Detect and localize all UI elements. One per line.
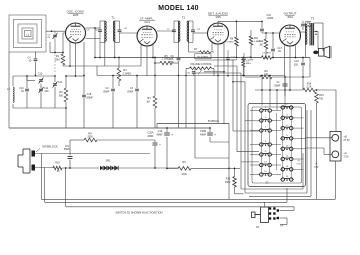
resistor R6 10 MEG in box <box>195 54 212 59</box>
wire - riser to S1 box bottom <box>286 188 288 202</box>
wire - cross links between columns <box>272 110 282 112</box>
trimmer capacitor C11 <box>53 83 57 85</box>
svg-text:+: + <box>171 133 173 137</box>
tube V1 OSC-CONV 1R5 <box>66 10 86 44</box>
svg-text:C6: C6 <box>124 28 128 30</box>
wire - line cord bottom <box>35 167 53 169</box>
svg-text:T3: T3 <box>311 17 315 21</box>
svg-text:MF: MF <box>170 61 174 64</box>
svg-text:C1: C1 <box>48 34 52 36</box>
capacitor C21 .05MF <box>68 156 73 158</box>
output transformer T3 <box>306 17 315 46</box>
capacitor C15 .05MF <box>82 94 86 96</box>
wire - contact column links right <box>282 108 284 180</box>
capacitor C10 volume coupling <box>192 71 195 73</box>
wire - AVC bus <box>63 65 112 67</box>
svg-text:MODEL 140: MODEL 140 <box>158 5 198 12</box>
wire - B minus riser down <box>228 168 230 199</box>
wire - V1 plate lower lead <box>86 38 101 40</box>
resistor R13 1500 <box>233 177 237 188</box>
resistor R14 2.2K <box>303 88 315 92</box>
wire - R15 riser <box>316 103 318 199</box>
wire - V2 plate to T2 <box>157 30 174 32</box>
svg-text:60: 60 <box>29 61 32 63</box>
svg-text:2.2MEG: 2.2MEG <box>123 73 132 76</box>
trimmer C8 <box>192 21 194 29</box>
svg-text:+: + <box>214 133 216 137</box>
wire - B+ bus top <box>95 57 240 59</box>
switch S1 contact R4 <box>281 137 284 140</box>
resistor R15 750 <box>315 92 319 103</box>
resistor R4 1 MEG <box>153 96 157 108</box>
rectifier SR1 <box>100 160 118 171</box>
capacitor C15 470MMF <box>301 23 305 25</box>
svg-text:.05MF: .05MF <box>274 85 281 88</box>
wire - line cord top <box>35 153 150 155</box>
wire - V1 left pin to R1 <box>63 32 66 34</box>
svg-text:.05MF: .05MF <box>63 149 70 151</box>
svg-text:1500: 1500 <box>225 181 231 184</box>
svg-text:3.3 MEG: 3.3 MEG <box>262 52 271 54</box>
capacitor C20B 40MF <box>207 132 213 134</box>
capacitor C4 <box>35 52 37 59</box>
wire - grid return <box>50 52 63 54</box>
potentiometer R5 1M volume control <box>190 67 212 70</box>
wire - right column stubs to box edge <box>294 117 304 119</box>
svg-text:VOLUME CONTROL: VOLUME CONTROL <box>190 64 212 66</box>
trimmer C5 <box>99 21 101 29</box>
svg-text:430: 430 <box>45 90 50 93</box>
wire - T2 secondary return <box>178 43 180 58</box>
IF transformer T1 <box>100 16 120 43</box>
tube V3 DET & AUDIO 1S5 <box>208 12 229 45</box>
svg-text:INTERLOCK: INTERLOCK <box>42 145 58 149</box>
resistor R10 33 <box>53 166 62 170</box>
svg-text:1M: 1M <box>259 44 262 47</box>
wire - entries into box top <box>261 76 263 106</box>
wire - T1 secondary return <box>104 43 106 67</box>
svg-text:1R5: 1R5 <box>73 13 79 17</box>
wire - feed 4 <box>244 82 246 193</box>
wire - coupling to V4 grid <box>262 32 280 34</box>
IF transformer T2 <box>174 16 193 43</box>
switch S1 contact L4 <box>260 143 263 146</box>
resistor R8 1.5 MEG <box>235 37 239 46</box>
resistor R12 1 MEG <box>264 39 268 49</box>
switch S1 contact R2 <box>281 116 284 119</box>
svg-text:40MF: 40MF <box>156 134 163 137</box>
svg-text:1200: 1200 <box>181 173 187 176</box>
wire - under-box bus 3 <box>249 195 311 197</box>
svg-text:1S5: 1S5 <box>215 15 221 19</box>
svg-text:L1: L1 <box>26 33 29 36</box>
loop antenna L1 <box>9 15 46 52</box>
oscillator coil L2 <box>13 87 14 102</box>
svg-text:C13: C13 <box>38 73 43 76</box>
svg-text:40MF: 40MF <box>147 135 154 138</box>
svg-text:1M: 1M <box>146 101 149 104</box>
wire - volume to ground bus <box>178 70 180 128</box>
svg-text:750: 750 <box>319 98 324 101</box>
wire - T2 to V3 grid <box>193 32 208 34</box>
svg-text:1U4: 1U4 <box>144 20 150 24</box>
svg-text:7.5V: 7.5V <box>314 166 319 169</box>
wire - T3 primary to B+ <box>305 45 307 58</box>
svg-text:4: 4 <box>286 115 288 117</box>
resistor R3 2.2 MEG <box>117 68 121 81</box>
capacitor C10 <box>25 88 29 90</box>
switch S1 contact L5 <box>260 153 263 156</box>
wire - V1 screen drop <box>94 28 96 58</box>
svg-text:3S4: 3S4 <box>287 15 293 19</box>
svg-text:S2: S2 <box>256 226 260 229</box>
wire - feed rung y81.8 <box>233 81 245 83</box>
wire - B+ feed <box>255 89 303 91</box>
wire - V3 pins <box>211 43 213 52</box>
resistor R8 1200 <box>178 167 191 171</box>
svg-text:40MF: 40MF <box>200 134 207 137</box>
switch S1 contact R1 <box>281 106 284 109</box>
svg-text:C8: C8 <box>197 29 201 31</box>
svg-text:50: 50 <box>95 30 98 32</box>
svg-text:R10: R10 <box>55 162 60 165</box>
svg-text:33: 33 <box>57 170 60 173</box>
capacitor C11 .05MF <box>226 57 230 59</box>
capacitor C17 .02MF <box>271 48 275 50</box>
wire - AGC / filament line mid <box>97 75 285 77</box>
wire - V2 pin drops <box>140 45 142 67</box>
svg-text:2.2K: 2.2K <box>307 86 312 89</box>
wire - feed rung y71.8 <box>204 71 224 73</box>
wire - T1 to V2 grid <box>120 32 138 34</box>
switch S1 contact R7 <box>281 168 284 171</box>
resistor R7 5 MEG <box>200 51 211 54</box>
capacitor C3 .05MF <box>135 88 139 90</box>
svg-text:10: 10 <box>286 146 289 148</box>
resistor R1 10 MEG <box>62 53 64 55</box>
wire - S2 connections <box>280 209 295 211</box>
wire - screen feed <box>94 58 96 76</box>
trimmer capacitor C13 <box>39 79 43 81</box>
svg-text:C3: C3 <box>130 88 134 90</box>
switch S1 contact L7 <box>260 173 263 176</box>
capacitor C12 .02MF <box>242 57 246 59</box>
resistor R5 2.2 MEG <box>160 61 172 65</box>
wire - V3 plate top run <box>217 21 219 23</box>
svg-text:7.5V: 7.5V <box>344 155 349 158</box>
svg-text:R7: R7 <box>194 49 198 51</box>
wire - grid bus V3 <box>204 32 208 34</box>
svg-text:11: 11 <box>264 151 267 153</box>
svg-text:-A: -A <box>297 160 300 163</box>
wire - V1 pin drops <box>69 42 71 67</box>
svg-text:600: 600 <box>59 95 64 98</box>
wire - bottom bus A <box>41 198 335 200</box>
wire - B+ bus right segment <box>240 57 262 59</box>
wire - under-box bus 1 <box>241 188 303 190</box>
switch S1 contact R3 <box>281 126 284 129</box>
svg-text:T2: T2 <box>182 16 186 20</box>
svg-text:.05MF: .05MF <box>86 97 93 100</box>
wire - feed 2 <box>236 66 238 152</box>
capacitor C16 coupling <box>261 21 263 28</box>
wire - screen bus from R9 <box>260 75 272 79</box>
svg-text:SWITCH S2 SHOWN IN AC POSITION: SWITCH S2 SHOWN IN AC POSITION <box>115 211 162 215</box>
svg-text:+A: +A <box>280 225 283 228</box>
svg-text:14: 14 <box>286 166 289 168</box>
wire - gang coupling dashed <box>54 55 56 75</box>
wire - antenna to V1 grid <box>46 30 66 32</box>
svg-text:.02: .02 <box>278 50 282 53</box>
wire - right riser 3 <box>310 110 312 196</box>
svg-text:R8: R8 <box>182 161 186 164</box>
tube V4 OUTPUT 3S4 <box>280 12 301 47</box>
wire - osc bottom <box>13 107 66 109</box>
svg-text:3: 3 <box>265 107 267 109</box>
switch S1 contact L3 <box>260 129 263 132</box>
wire - feed 1 <box>232 60 234 131</box>
svg-text:.005: .005 <box>293 64 298 67</box>
wire - V4 plate into T3 <box>301 31 306 33</box>
svg-text:B MINUS: B MINUS <box>208 119 219 123</box>
wire - right riser 1 <box>302 153 304 189</box>
resistor R16 2.2 MEG screen <box>242 59 245 67</box>
svg-text:+: + <box>159 143 161 147</box>
wire - contact column links left <box>260 111 262 175</box>
wire - B minus upper run <box>157 123 229 125</box>
svg-text:9: 9 <box>265 141 267 143</box>
svg-text:15: 15 <box>264 171 267 173</box>
svg-text:13: 13 <box>264 162 267 164</box>
wire - bottom bus B <box>45 201 287 203</box>
svg-text:3300: 3300 <box>87 136 93 139</box>
svg-text:100: 100 <box>264 73 269 76</box>
resistor R10 3.3 MEG on bus <box>262 56 272 60</box>
variable capacitor C1 tuning <box>54 31 56 33</box>
svg-text:.05: .05 <box>47 37 51 39</box>
svg-text:.02MF: .02MF <box>247 59 254 61</box>
svg-text:10M: 10M <box>55 59 60 62</box>
wire - feed 3 <box>240 73 242 189</box>
switch S1 contact R6 <box>281 157 284 160</box>
trimmer C7 <box>173 21 175 29</box>
svg-text:6: 6 <box>286 125 288 127</box>
svg-text:67.5V: 67.5V <box>344 139 351 142</box>
svg-text:MEG: MEG <box>246 63 251 65</box>
resistor R9 3300 <box>84 138 97 142</box>
svg-text:C5: C5 <box>87 30 91 32</box>
wire - B minus bus <box>8 52 10 128</box>
svg-text:.05MF: .05MF <box>103 91 110 94</box>
svg-text:8: 8 <box>286 135 288 137</box>
svg-text:SR1: SR1 <box>106 160 111 163</box>
wire - battery negative down <box>334 161 336 199</box>
switch S2 body <box>252 207 269 223</box>
svg-text:2: 2 <box>286 104 288 106</box>
svg-text:7: 7 <box>265 127 267 129</box>
svg-text:12: 12 <box>286 156 289 158</box>
wire - osc top <box>13 75 55 77</box>
svg-text:R8: R8 <box>230 39 234 41</box>
switch S1 contact L6 <box>260 163 263 166</box>
svg-text:16: 16 <box>286 176 289 178</box>
svg-text:C11: C11 <box>58 81 63 84</box>
wire - battery leads <box>306 137 332 139</box>
capacitor C2 .05MF <box>111 88 115 90</box>
AC interlock plug P1 <box>18 149 35 173</box>
svg-text:60: 60 <box>21 90 24 93</box>
svg-text:.02MF: .02MF <box>267 17 274 20</box>
resistor R11 2 MEG <box>249 36 253 45</box>
switch S2 contacts <box>269 207 279 219</box>
wire - T3 secondary leads <box>314 22 323 24</box>
capacitor C20A 40MF <box>153 142 158 144</box>
wire - feeds horizontal <box>195 59 233 61</box>
svg-text:C10: C10 <box>186 73 191 75</box>
wire - under-box bus 2 <box>245 192 307 194</box>
svg-text:C21: C21 <box>65 146 70 148</box>
wire - V1 plate to T1 <box>86 27 101 29</box>
svg-text:1.5 MEG: 1.5 MEG <box>225 42 234 44</box>
trimmer capacitor C12 <box>39 88 43 90</box>
svg-text:R6 10 MEG: R6 10 MEG <box>197 56 208 58</box>
svg-text:T1: T1 <box>111 16 115 20</box>
wire - column middle link <box>275 113 277 170</box>
speaker LS1 <box>313 46 331 58</box>
switch S1 outer box <box>248 104 306 187</box>
wire - bottom bus C <box>66 206 294 208</box>
wire - right riser 2 <box>306 110 308 193</box>
battery plug B1 <box>330 132 341 162</box>
wire - C19 filter <box>164 132 170 134</box>
capacitor C18b .05MF <box>283 83 288 85</box>
tube V2 IF AMPL 1U4 <box>137 17 157 47</box>
svg-text:.05MF: .05MF <box>127 91 134 93</box>
switch S1 contact R8 <box>281 178 284 181</box>
wire - AVC to V2 <box>112 65 141 67</box>
svg-text:C4: C4 <box>28 58 32 60</box>
svg-text:7.5V: 7.5V <box>296 164 301 166</box>
switch S1 contact L1 <box>260 109 263 112</box>
wire - to R13 <box>229 167 240 169</box>
switch S1 contact R5 <box>281 147 284 150</box>
svg-text:MMF: MMF <box>307 26 313 28</box>
capacitor C9 .005MF <box>177 57 181 59</box>
wire - V1 cathode to osc <box>69 66 71 76</box>
trimmer C6 <box>119 21 121 29</box>
capacitor C18 .005MF <box>301 62 305 64</box>
wire - V4 pins <box>284 46 286 76</box>
wire - battery lead stubs from contacts <box>294 137 306 139</box>
switch S1 contact L2 <box>260 119 263 122</box>
svg-text:2.2MEG: 2.2MEG <box>162 59 171 61</box>
wire - left edge stubs <box>250 110 259 112</box>
switch S1 inner box <box>252 107 302 183</box>
svg-text:5: 5 <box>265 117 267 119</box>
resistor R2 600 <box>64 88 68 102</box>
